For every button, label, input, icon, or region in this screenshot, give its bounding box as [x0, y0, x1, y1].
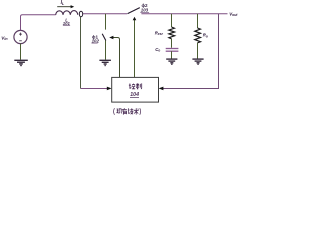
control arrow to phi1 — [113, 38, 120, 78]
branch wire to Resr — [171, 14, 173, 27]
branch wire to Ro — [197, 14, 199, 28]
feedback wire right (rail down to control) — [161, 14, 218, 89]
resistor Resr (zigzag) — [169, 27, 175, 39]
voltage source Vin — [14, 30, 27, 43]
有 — [122, 108, 127, 115]
wire Ro to ground — [197, 43, 199, 59]
ground (Ro) — [192, 59, 203, 64]
rail phi2 to Vout — [141, 13, 227, 15]
ground (phi1) — [99, 60, 111, 65]
current arrow IL — [57, 5, 74, 8]
） — [139, 108, 142, 115]
wire Vin bottom to ground — [20, 44, 22, 60]
svg-text:Vin: Vin — [1, 35, 8, 41]
resistor Ro (zigzag) — [195, 28, 201, 43]
wire Resr to Co — [171, 39, 173, 48]
inductor L (3 humps) — [56, 11, 78, 15]
wire phi1 bottom to ground — [105, 41, 107, 60]
switch phi2 (arm) — [128, 8, 140, 14]
capacitor Co plates — [166, 48, 179, 50]
feedback wire left (node down to control) — [80, 17, 82, 89]
svg-text:Vout: Vout — [229, 12, 238, 18]
text 控制 (hand-drawn strokes) — [129, 83, 142, 89]
控 — [129, 84, 131, 89]
现 — [116, 109, 122, 114]
wire rail drop to switch phi1 — [105, 14, 107, 30]
svg-text:Ro: Ro — [203, 33, 208, 39]
术 — [134, 108, 139, 115]
switch phi1 (arm) — [102, 34, 106, 41]
control arrow to phi2 (up) — [134, 20, 136, 78]
wire node to phi2 switch — [83, 13, 127, 15]
ground (Co) — [166, 59, 177, 64]
（ — [113, 108, 116, 115]
制 — [136, 83, 142, 89]
control block 104 — [112, 77, 159, 102]
svg-text:Co: Co — [155, 47, 160, 53]
svg-text:102: 102 — [92, 38, 100, 43]
svg-text:Resr: Resr — [155, 30, 164, 36]
wire from Vin top to rail — [21, 15, 56, 31]
svg-text:103: 103 — [141, 8, 149, 13]
wire Co to ground — [171, 51, 173, 58]
技 — [128, 108, 133, 114]
caption (prior art) — [114, 108, 141, 115]
ground (Vin) — [14, 60, 27, 65]
node (open junction circle) — [79, 11, 82, 17]
